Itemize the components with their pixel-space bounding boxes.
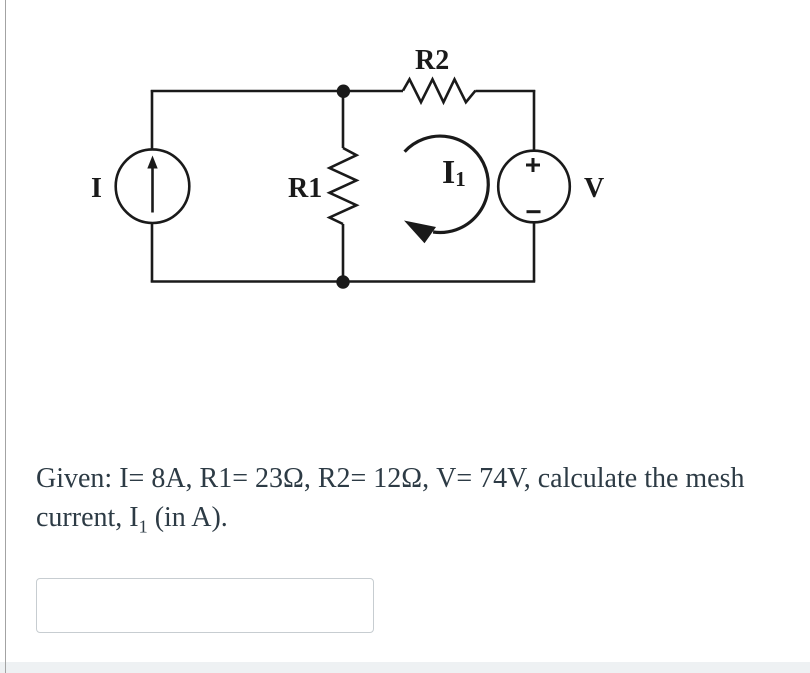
- resistor R1: [330, 148, 357, 224]
- svg-text:I: I: [91, 173, 102, 204]
- svg-text:R2: R2: [415, 45, 449, 76]
- node junction bottom: [336, 275, 349, 288]
- svg-text:V: V: [584, 173, 604, 204]
- scrollbar track bottom: [0, 662, 810, 673]
- wire left upper: [151, 90, 154, 150]
- wire right lower: [533, 222, 536, 281]
- answer input box: [36, 578, 374, 633]
- question text: [36, 459, 776, 547]
- resistor R2: [403, 79, 476, 102]
- wire right upper: [533, 90, 536, 151]
- wire middle lower: [342, 224, 345, 282]
- svg-text:R1: R1: [288, 173, 322, 204]
- mesh current arrow I1: [404, 136, 488, 243]
- voltage source V: [498, 151, 570, 223]
- node junction top: [337, 85, 350, 98]
- border line left: [5, 0, 7, 673]
- wire top-left segment: [151, 90, 403, 93]
- wire top-right segment: [476, 90, 536, 93]
- wire bottom: [151, 280, 535, 283]
- svg-text:I1: I1: [442, 154, 466, 191]
- wire left lower: [151, 223, 154, 283]
- current source I: [116, 149, 190, 223]
- wire middle upper: [342, 91, 345, 148]
